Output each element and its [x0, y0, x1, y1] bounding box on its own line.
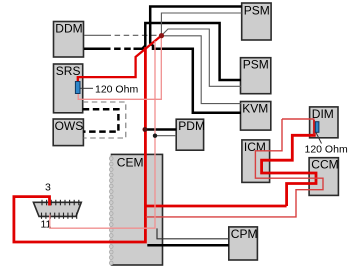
module DIM box — [310, 107, 338, 138]
svg-text:120 Ohm: 120 Ohm — [95, 84, 138, 96]
wire DDM thin to hub (solid then dashed) — [84, 34, 160, 36]
module CPM box — [229, 227, 258, 260]
svg-text:CEM: CEM — [117, 156, 144, 170]
svg-text:DIM: DIM — [312, 107, 334, 121]
wire DIM resistor red drop — [313, 120, 315, 135]
wire pink: SRS thin red to hub drop — [78, 37, 161, 100]
label pointer SRS resistor — [81, 87, 94, 89]
svg-text:SRS: SRS — [56, 64, 81, 78]
junction PDM thick dot — [143, 127, 148, 132]
wire CAN thin red: DIM resistor entry and down to ICM — [146, 119, 323, 217]
wire PDM thin gray — [155, 135, 176, 137]
module SRS box — [54, 64, 83, 113]
module ICM box — [242, 140, 270, 183]
wire PDM thick black — [145, 128, 176, 131]
svg-text:PDM: PDM — [178, 119, 205, 133]
label pointer DIM resistor — [316, 133, 322, 144]
resistor 120 Ohm in SRS — [75, 82, 80, 94]
wire hub to KVM thin — [162, 36, 242, 104]
module KVM box — [241, 102, 271, 131]
wire SRS-OWS thin dashed loop — [83, 102, 126, 138]
module DDM box — [54, 22, 84, 58]
wire CAN thick red: CEM corner right to CCM riser — [145, 205, 286, 208]
wire CPM thin black — [157, 228, 229, 238]
module PDM box — [176, 119, 205, 150]
svg-text:OWS: OWS — [55, 119, 84, 133]
svg-text:3: 3 — [45, 182, 51, 194]
svg-text:CCM: CCM — [311, 158, 338, 172]
wire CAN thick red bus vertical down CEM to bottom loop and DLC pin 3 — [14, 47, 146, 242]
connector DLC trapezoid with pins — [33, 200, 81, 219]
junction PDM thin dot — [153, 134, 157, 138]
svg-text:PSM: PSM — [244, 4, 270, 18]
wire DDM thick (solid then dashed) to chamfer up — [84, 23, 241, 80]
wire SRS-OWS thick dashed loop — [83, 109, 119, 131]
module CEM box with scalloped left edge — [109, 154, 162, 265]
module CCM box — [309, 158, 339, 196]
module PSM lower box — [241, 58, 271, 94]
junction hub dot — [159, 33, 164, 38]
wire hub to PSM lower thin — [162, 29, 242, 86]
svg-text:120 Ohm: 120 Ohm — [305, 144, 348, 156]
svg-text:PSM: PSM — [243, 58, 269, 72]
svg-text:KVM: KVM — [242, 102, 268, 116]
svg-text:CPM: CPM — [231, 227, 258, 241]
svg-text:DDM: DDM — [55, 22, 82, 36]
wire hub to PSM upper thin — [161, 13, 241, 35]
resistor 120 Ohm in DIM — [315, 122, 319, 133]
wire pink: bus CAN-L vertical pin11 line — [50, 41, 155, 228]
module OWS box — [53, 119, 83, 146]
wire PSM upper thick to KVM thick — [150, 7, 242, 113]
wire CAN thick red: SRS terminator up over diagonal to hub — [14, 36, 316, 242]
wire CPM thick black — [147, 244, 229, 247]
module PSM upper box — [242, 3, 271, 40]
